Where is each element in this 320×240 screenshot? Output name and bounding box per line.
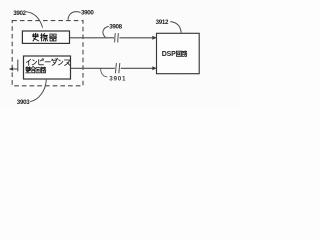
svg-text:3903: 3903 — [17, 99, 30, 106]
svg-text:3900: 3900 — [81, 10, 94, 17]
capacitor 3908 — [115, 33, 119, 42]
svg-text:3912: 3912 — [156, 19, 169, 26]
leader 3908 — [103, 26, 109, 37]
wire: transducer output to capacitor 3908 — [70, 37, 115, 39]
svg-text:DSP: DSP — [162, 51, 176, 58]
wire: left stub with arrow out of dashed box — [9, 60, 18, 72]
wire: capacitor 3901 to DSP with arrowhead — [121, 66, 157, 70]
leader 3912 — [170, 22, 181, 33]
dashed assembly box 3900 — [12, 21, 83, 86]
wire: impedance box output to capacitor 3901 — [71, 67, 115, 69]
impedance matching box (インピーダンス整合回路) — [24, 56, 71, 79]
label DSP回路 — [162, 51, 187, 58]
svg-text:3908: 3908 — [109, 24, 122, 31]
label インピーダンス — [27, 58, 70, 65]
capacitor 3901 — [115, 63, 119, 73]
leader 3900 — [68, 12, 81, 20]
svg-text:3901: 3901 — [109, 76, 126, 83]
label 変換器 — [32, 33, 56, 41]
leader 3901 — [101, 69, 108, 77]
label 整合回路 — [26, 67, 46, 73]
DSP circuit box 3912 — [157, 33, 200, 73]
wire: capacitor 3908 to DSP with arrowhead — [120, 36, 157, 40]
leader 3902 — [26, 12, 43, 28]
leader 3903 — [30, 80, 46, 102]
transducer box (変換器) — [22, 31, 69, 43]
svg-text:3902: 3902 — [13, 10, 26, 17]
